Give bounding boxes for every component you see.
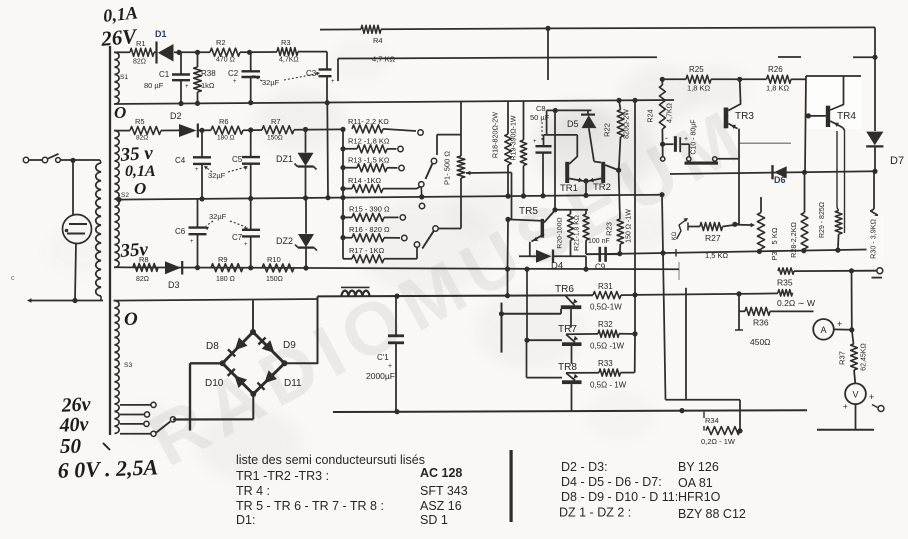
- capacitor C8: [530, 104, 577, 196]
- svg-text:C2: C2: [228, 69, 239, 78]
- parts row TR1: [236, 466, 462, 483]
- switch wiper upper: [421, 158, 436, 197]
- capacitor C9: [586, 238, 619, 272]
- line D6: [670, 169, 878, 175]
- node C4: [199, 128, 204, 133]
- svg-text:TR 5 - TR 6 - TR 7 - TR 8 :: TR 5 - TR 6 - TR 7 - TR 8 :: [236, 499, 384, 513]
- output terminal plus: [872, 268, 883, 278]
- svg-text:P3: P3: [770, 251, 779, 260]
- resistor R9: [211, 255, 243, 283]
- resistor R12: [343, 137, 403, 153]
- svg-text:R37: R37: [838, 351, 847, 365]
- svg-text:+: +: [185, 84, 189, 90]
- rail middle: [116, 192, 664, 202]
- potentiometer P1: [443, 151, 465, 185]
- transistor TR8: [558, 362, 582, 411]
- label R30: [867, 216, 885, 263]
- resistor R11: [348, 117, 423, 135]
- wire V1: [662, 195, 666, 400]
- feedback line x635: [634, 100, 636, 295]
- handwritten 26V: [99, 24, 139, 51]
- resistor R8: [133, 255, 158, 283]
- parts row D1: [236, 513, 448, 527]
- node R31 right: [632, 292, 637, 297]
- node C2 top: [247, 50, 277, 55]
- svg-text:C3: C3: [306, 69, 317, 78]
- svg-text:32µF: 32µF: [208, 171, 226, 180]
- svg-text:D6: D6: [774, 175, 786, 185]
- bus R11 block left: [340, 127, 345, 198]
- svg-text:AC 128: AC 128: [420, 466, 462, 480]
- svg-text:S3: S3: [124, 362, 133, 369]
- svg-text:450Ω: 450Ω: [750, 337, 771, 347]
- svg-text:50 µF: 50 µF: [530, 113, 550, 122]
- TR4 box top: [806, 75, 861, 77]
- svg-text:D10: D10: [205, 378, 224, 389]
- resistor R3: [277, 38, 327, 64]
- svg-text:26V: 26V: [99, 24, 139, 51]
- svg-text:R29 - 825Ω: R29 - 825Ω: [819, 202, 826, 238]
- transistor TR4: [806, 76, 857, 128]
- svg-text:A: A: [820, 325, 826, 335]
- wire bridge top: [252, 300, 254, 332]
- diode D11: [258, 370, 303, 389]
- svg-text:DZ2: DZ2: [276, 236, 293, 246]
- mains switch S: [23, 154, 71, 163]
- svg-text:C10 - 80µF: C10 - 80µF: [691, 119, 698, 154]
- svg-text:R27: R27: [705, 233, 721, 243]
- rail mid-right: [586, 248, 874, 281]
- svg-text:0,5Ω -1W: 0,5Ω -1W: [590, 342, 624, 351]
- tap 40v: [120, 412, 150, 417]
- svg-text:180 Ω: 180 Ω: [217, 135, 235, 142]
- TR4 patch box: [806, 76, 862, 129]
- wire A node: [849, 271, 854, 333]
- wire plug bottom: [75, 243, 76, 300]
- svg-text:+: +: [533, 139, 537, 145]
- svg-text:+: +: [837, 319, 842, 329]
- svg-text:D2: D2: [170, 111, 182, 121]
- pot P2 track: [685, 157, 740, 165]
- diode D2: [161, 111, 211, 138]
- paper texture blobs: [45, 39, 748, 481]
- svg-text:62,45KΩ: 62,45KΩ: [861, 343, 868, 370]
- svg-text:R18-820Ω-2W: R18-820Ω-2W: [491, 112, 500, 158]
- svg-text:R33: R33: [598, 359, 613, 368]
- svg-text:R2: R2: [216, 38, 226, 47]
- svg-text:80 µF: 80 µF: [144, 81, 164, 90]
- line emitters bus: [635, 291, 778, 296]
- zener DZ1: [276, 127, 317, 198]
- resistor R21: [574, 210, 590, 254]
- capacitor C2: [228, 53, 260, 103]
- node mains: [70, 158, 100, 163]
- handwritten O sec2: [134, 179, 146, 198]
- svg-text:0,5Ω - 1W: 0,5Ω - 1W: [590, 381, 627, 390]
- svg-text:V: V: [852, 389, 858, 399]
- transistor TR2: [589, 162, 619, 193]
- wire P1 top: [437, 101, 461, 156]
- svg-text:+: +: [190, 239, 194, 245]
- svg-text:1,8 KΩ: 1,8 KΩ: [687, 84, 711, 93]
- svg-text:R21-1,8 KΩ: R21-1,8 KΩ: [574, 215, 581, 251]
- svg-text:R35: R35: [777, 278, 793, 288]
- diode D3: [165, 261, 182, 290]
- svg-text:+: +: [684, 136, 688, 143]
- resistor R7: [243, 117, 343, 142]
- svg-text:liste des semi conducteursuti: liste des semi conducteursuti lisés: [236, 453, 425, 467]
- svg-text:HFR1O: HFR1O: [678, 490, 721, 504]
- resistor R28: [789, 172, 808, 258]
- node R27 right: [732, 222, 755, 228]
- resistor R29: [819, 202, 842, 250]
- resistor R27: [688, 223, 735, 244]
- resistor R34: [701, 412, 740, 446]
- resistor R4: [361, 25, 383, 45]
- wire TR4 base down: [805, 76, 806, 172]
- resistor R16: [343, 225, 407, 242]
- svg-text:0.2Ω ∼ W: 0.2Ω ∼ W: [777, 298, 815, 308]
- svg-text:R5: R5: [135, 117, 145, 126]
- transformer primary: [96, 160, 101, 301]
- svg-text:ASZ 16: ASZ 16: [420, 499, 462, 513]
- wire mains return: [27, 298, 103, 303]
- rail output top: [318, 293, 594, 299]
- wire bridge bottom: [173, 394, 253, 420]
- svg-text:+: +: [244, 242, 248, 248]
- winding S1: [115, 52, 129, 104]
- svg-text:C6: C6: [175, 227, 186, 236]
- label 32uF sec2: [204, 166, 248, 180]
- node C5 top: [248, 127, 253, 132]
- svg-text:D7: D7: [890, 155, 904, 167]
- resistor R14: [343, 176, 424, 193]
- svg-text:R20-100Ω: R20-100Ω: [557, 217, 564, 248]
- svg-text:R34: R34: [705, 416, 719, 425]
- capacitor C4: [175, 131, 211, 199]
- switch wiper lower: [419, 203, 438, 248]
- svg-text:R14 -1KΩ: R14 -1KΩ: [348, 176, 382, 185]
- voltmeter V: [843, 383, 874, 411]
- diode D10: [205, 369, 247, 389]
- parts row D4-D7: [561, 475, 713, 490]
- diode D7: [866, 132, 904, 172]
- svg-text:TR2: TR2: [593, 182, 611, 193]
- handwritten 35v sec3: [119, 239, 149, 262]
- transistor TR1: [560, 135, 584, 194]
- svg-text:TR1: TR1: [560, 183, 578, 194]
- svg-text:R24: R24: [646, 109, 655, 122]
- diode D5: [567, 110, 597, 129]
- svg-text:R10: R10: [267, 255, 281, 264]
- resistor R32: [566, 320, 638, 351]
- node C10 left: [660, 142, 665, 162]
- svg-text:R38: R38: [201, 69, 216, 78]
- svg-text:1kΩ: 1kΩ: [201, 81, 215, 90]
- svg-text:R6: R6: [219, 117, 229, 126]
- svg-text:0,1A: 0,1A: [102, 2, 138, 25]
- transistor TR5: [505, 206, 553, 242]
- svg-text:82Ω: 82Ω: [133, 59, 146, 66]
- svg-text:D8 - D9 - D10 - D 11:: D8 - D9 - D10 - D 11:: [561, 490, 678, 504]
- svg-text:D4 - D5 - D6 - D7:: D4 - D5 - D6 - D7:: [561, 475, 662, 489]
- node TR3 collector top: [737, 77, 742, 82]
- svg-text:4,7 KΩ: 4,7 KΩ: [372, 55, 396, 64]
- svg-text:R19-390Ω-1W: R19-390Ω-1W: [511, 115, 518, 160]
- wire TR5 emitter: [529, 242, 531, 256]
- resistor R31: [590, 282, 635, 312]
- svg-text:R31: R31: [598, 282, 613, 291]
- svg-text:R3: R3: [281, 38, 291, 47]
- svg-text:P1- 500 Ω: P1- 500 Ω: [443, 151, 452, 185]
- svg-text:TR4: TR4: [837, 111, 856, 122]
- handwritten 0,1A: [102, 2, 138, 25]
- parts list title: [236, 453, 425, 467]
- svg-text:SFT 343: SFT 343: [420, 484, 468, 498]
- svg-text:c: c: [11, 275, 15, 282]
- svg-text:50: 50: [60, 434, 82, 458]
- potentiometer P3: [757, 197, 779, 261]
- svg-text:OA 81: OA 81: [678, 476, 713, 490]
- svg-text:R25: R25: [689, 65, 704, 74]
- resistor R35b: [777, 290, 815, 308]
- svg-text:R23: R23: [605, 222, 614, 236]
- resistor R37: [838, 330, 868, 384]
- watermark: [136, 91, 761, 482]
- parts row DZ: [559, 506, 746, 522]
- handwritten 0,1A sec2: [125, 163, 156, 180]
- resistor R26: [740, 65, 806, 93]
- line R34 top: [666, 399, 741, 401]
- line 4,7K: [338, 55, 878, 82]
- parts row D8-D11: [561, 490, 721, 504]
- svg-text:D3: D3: [168, 280, 180, 290]
- wire bridge minus: [190, 363, 223, 430]
- svg-text:R28-2,2KΩ: R28-2,2KΩ: [789, 222, 798, 258]
- bus R31-R33 right: [634, 295, 636, 373]
- diode D8: [206, 337, 248, 356]
- svg-text:D9: D9: [283, 340, 296, 351]
- svg-text:D8: D8: [206, 341, 219, 352]
- handwritten 26v: [60, 393, 92, 417]
- transistor TR6: [555, 284, 581, 328]
- resistor R13: [343, 156, 404, 172]
- svg-text:DZ 1 - DZ 2 :: DZ 1 - DZ 2 :: [559, 506, 631, 520]
- wire right edge: [874, 27, 876, 131]
- tap switch: [156, 417, 175, 433]
- resistor R19: [520, 101, 526, 196]
- resistor R2: [210, 38, 250, 64]
- svg-text:D5: D5: [567, 119, 579, 129]
- wire V2: [685, 288, 687, 400]
- winding S3: [115, 301, 133, 434]
- svg-text:C9: C9: [595, 263, 606, 272]
- svg-text:KΩ: KΩ: [672, 231, 678, 240]
- parts list divider: [510, 450, 513, 522]
- choke L1: [341, 287, 370, 296]
- P2 wiper: [672, 218, 688, 240]
- svg-text:TR 4 :: TR 4 :: [236, 484, 270, 498]
- capacitor C5: [232, 131, 260, 198]
- svg-text:6 0V . 2,5A: 6 0V . 2,5A: [57, 454, 158, 482]
- wire S1 top: [114, 51, 130, 53]
- diode D1: [155, 29, 179, 64]
- capacitor C3: [306, 52, 335, 103]
- svg-text:S2: S2: [121, 192, 129, 199]
- wire R24-R25: [662, 78, 686, 80]
- tap 50v: [120, 421, 149, 426]
- base bus: [499, 269, 562, 378]
- rail bottom: [333, 408, 807, 414]
- resistor R24: [646, 79, 674, 144]
- handwritten O sec1: [114, 103, 126, 122]
- svg-text:C'1: C'1: [377, 353, 389, 362]
- wire R20R21 top: [555, 209, 588, 211]
- resistor R22: [603, 100, 631, 169]
- line C8 top: [547, 108, 592, 135]
- svg-text:SD 1: SD 1: [420, 513, 448, 527]
- wire R1-D1: [154, 51, 157, 53]
- parts row D2D3: [561, 460, 719, 474]
- svg-text:820Ω-2W: 820Ω-2W: [624, 109, 631, 139]
- svg-text:TR6: TR6: [555, 284, 574, 295]
- rail section1 bottom: [114, 98, 674, 106]
- wire mains down: [72, 161, 74, 215]
- svg-text:BY 126: BY 126: [678, 460, 719, 474]
- svg-text:D11: D11: [284, 378, 302, 389]
- svg-text:O: O: [114, 103, 126, 122]
- resistor R17: [343, 242, 420, 263]
- svg-text:TR5: TR5: [519, 206, 538, 217]
- svg-text:-: -: [665, 133, 668, 143]
- svg-text:R8: R8: [139, 255, 149, 264]
- wire P1 bottom: [439, 178, 462, 229]
- svg-text:C1: C1: [159, 70, 170, 79]
- capacitor C10: [663, 119, 698, 161]
- tap 60v: [120, 431, 156, 436]
- svg-text:+: +: [233, 79, 237, 85]
- node TR5 collector: [552, 111, 557, 213]
- node R24 top: [660, 77, 665, 82]
- svg-text:R32: R32: [598, 320, 613, 329]
- svg-text:C4: C4: [175, 156, 186, 165]
- label 32uF sec1: [252, 72, 320, 87]
- svg-text:O: O: [134, 179, 146, 198]
- svg-text:R1: R1: [136, 39, 146, 48]
- svg-text:150Ω: 150Ω: [267, 135, 283, 142]
- resistor R25: [686, 65, 740, 93]
- svg-text:R26: R26: [768, 65, 783, 74]
- svg-text:D1: D1: [155, 29, 167, 39]
- resistor R38: [194, 50, 217, 104]
- diode D6: [773, 165, 787, 185]
- wire V bottom: [817, 404, 874, 430]
- wire bridge+ up: [285, 296, 318, 363]
- capacitor C7: [232, 199, 260, 268]
- svg-text:R12 -1,8 KΩ: R12 -1,8 KΩ: [348, 137, 390, 146]
- resistor R36: [739, 307, 814, 347]
- resistor R1: [130, 39, 154, 66]
- svg-text:150 Ω -1W: 150 Ω -1W: [626, 209, 633, 243]
- svg-text:5 KΩ: 5 KΩ: [770, 227, 779, 244]
- svg-text:R11- 2,2 KΩ: R11- 2,2 KΩ: [348, 117, 389, 126]
- svg-text:TR3: TR3: [735, 111, 754, 122]
- transistor TR3: [724, 79, 755, 129]
- svg-text:0,2Ω - 1W: 0,2Ω - 1W: [701, 437, 736, 446]
- zener DZ2: [276, 198, 317, 268]
- svg-text:D4: D4: [551, 261, 563, 272]
- handwritten 50: [60, 434, 110, 458]
- svg-text:4,7KΩ: 4,7KΩ: [279, 57, 299, 64]
- svg-text:32µF: 32µF: [262, 78, 280, 87]
- handwritten 35v: [119, 143, 154, 166]
- svg-text:R36: R36: [753, 318, 769, 328]
- wire TR4 emitter: [837, 128, 845, 234]
- wire TR5 base column: [507, 219, 510, 269]
- label R19: [511, 115, 518, 160]
- resistor R18: [491, 101, 512, 196]
- wire C3 down to mid rail: [326, 103, 329, 198]
- svg-text:32µF: 32µF: [209, 212, 227, 221]
- rail section3: [114, 265, 679, 272]
- svg-text:D1:: D1:: [236, 513, 255, 527]
- line R35: [777, 268, 877, 288]
- svg-text:82Ω: 82Ω: [136, 135, 148, 142]
- svg-text:R15 - 390 Ω: R15 - 390 Ω: [349, 205, 390, 214]
- wire stub x548: [547, 28, 549, 80]
- svg-text:+: +: [388, 363, 392, 370]
- tap 26v: [120, 402, 156, 407]
- handwritten 60V: [57, 454, 158, 482]
- wire TR3 emitter: [735, 129, 791, 225]
- svg-text:S1: S1: [120, 74, 129, 81]
- svg-text:470 Ω: 470 Ω: [216, 57, 235, 64]
- parts row TR4: [236, 484, 468, 498]
- transistor TR7: [558, 324, 582, 364]
- capacitor C11: [366, 296, 404, 412]
- capacitor C6: [175, 199, 207, 268]
- node TR2 collector: [616, 168, 621, 173]
- svg-text:BZY 88 C12: BZY 88 C12: [678, 507, 746, 521]
- svg-text:R22: R22: [603, 123, 612, 137]
- svg-text:+: +: [195, 167, 199, 173]
- ammeter A: [813, 319, 851, 340]
- wire S2 top: [114, 130, 130, 132]
- svg-text:R16 - 820 Ω: R16 - 820 Ω: [349, 225, 390, 234]
- wire R34 right: [737, 400, 742, 434]
- label c: [11, 275, 15, 282]
- stub R36: [735, 294, 743, 330]
- svg-text:2000µF: 2000µF: [366, 371, 395, 381]
- wire S3 top: [114, 299, 318, 301]
- svg-text:100 nF: 100 nF: [588, 238, 610, 245]
- svg-text:TR1 -TR2 -TR3 :: TR1 -TR2 -TR3 :: [236, 469, 329, 483]
- handwritten O sec4: [124, 309, 138, 330]
- svg-text:R4: R4: [373, 36, 383, 45]
- label D1 value: [0, 0, 1, 1]
- resistor R20: [557, 210, 574, 256]
- diode D4: [519, 250, 586, 272]
- svg-text:C5: C5: [232, 155, 243, 164]
- resistor R15: [343, 205, 405, 222]
- svg-text:R9: R9: [218, 255, 228, 264]
- svg-text:1,5 KΩ: 1,5 KΩ: [705, 251, 729, 260]
- node C1 top: [176, 50, 210, 55]
- svg-text:+: +: [331, 79, 335, 85]
- label 32uF sec3: [205, 212, 248, 231]
- wire top right: [381, 26, 875, 31]
- resistor R30: [871, 171, 878, 250]
